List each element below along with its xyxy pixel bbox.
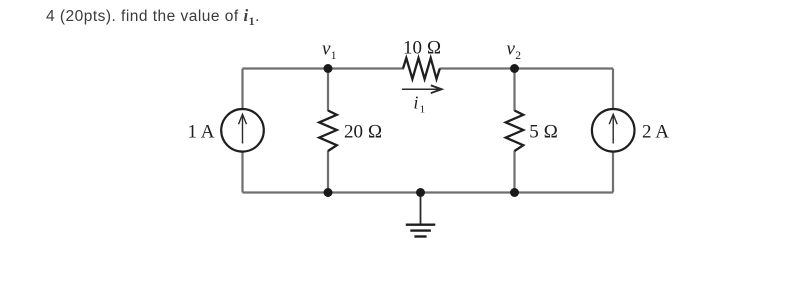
svg-text:1 A: 1 A — [188, 121, 215, 142]
current source I1 1A circle — [221, 109, 264, 152]
node ground junction dot — [416, 188, 425, 197]
svg-text:10 Ω: 10 Ω — [403, 37, 441, 58]
svg-text:v: v — [507, 39, 516, 60]
wire left lower (1A source to bottom corner) — [241, 152, 243, 193]
resistor R3 5ohm vertical zigzag — [506, 111, 524, 152]
wire top from v1 to 10ohm resistor — [328, 67, 404, 69]
wire ground stem — [420, 193, 422, 225]
wire right upper (corner to 2A source) — [612, 69, 614, 110]
svg-text:i: i — [414, 93, 419, 113]
svg-text:2 A: 2 A — [642, 121, 669, 142]
wire top from 10ohm resistor to v2 — [440, 67, 515, 69]
arrow inside 2A source — [609, 114, 617, 143]
resistor R2 20ohm vertical zigzag — [319, 111, 337, 152]
wire right lower (2A source to bottom corner) — [612, 152, 614, 193]
node v2 dot — [510, 64, 519, 73]
wire below 5ohm to bottom rail — [513, 151, 515, 193]
current source I2 2A circle — [592, 109, 635, 152]
wire v2 stem above 5ohm — [513, 69, 515, 112]
node bottom-right junction dot — [510, 188, 519, 197]
wire top-left segment v1 to left corner — [243, 67, 329, 69]
node v1 dot — [324, 64, 333, 73]
wire top from v2 to right corner — [515, 67, 614, 69]
svg-text:20 Ω: 20 Ω — [344, 121, 382, 142]
svg-text:v: v — [322, 39, 331, 60]
wire bottom rail — [243, 191, 614, 193]
svg-text:1: 1 — [331, 50, 337, 62]
ground symbol bars — [406, 225, 436, 237]
current arrow i1 — [402, 85, 442, 93]
arrow inside 1A source — [239, 114, 247, 143]
svg-text:1: 1 — [420, 104, 426, 116]
title text — [46, 6, 260, 29]
wire v1 stem above 20ohm — [327, 69, 329, 112]
svg-text:2: 2 — [515, 50, 521, 62]
wire left upper (corner to 1A source) — [241, 69, 243, 110]
wire below 20ohm to bottom rail — [327, 151, 329, 193]
svg-text:5 Ω: 5 Ω — [529, 121, 558, 142]
resistor R1 10ohm horizontal zigzag — [403, 58, 440, 79]
node bottom-left junction dot — [324, 188, 333, 197]
